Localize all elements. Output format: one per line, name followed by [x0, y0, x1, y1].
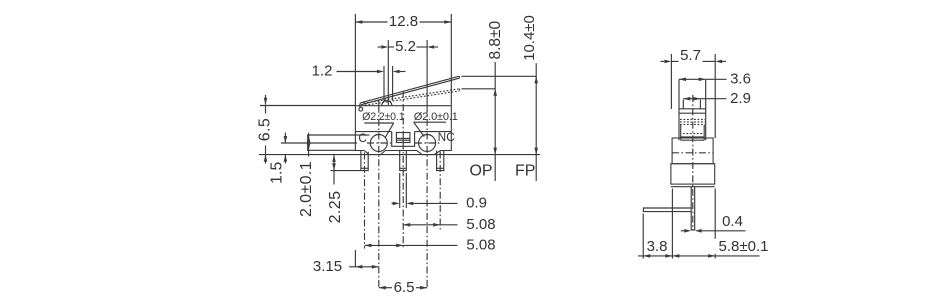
lever free position (solid) - upper edge [360, 76, 459, 103]
terminal pin middle (plunger axis) [400, 151, 407, 171]
side view: body bottom second line [671, 186, 715, 188]
svg-text:Ø2.0±0.1: Ø2.0±0.1 [414, 111, 458, 123]
side view: inner block below lever [680, 125, 682, 140]
svg-text:1.2: 1.2 [312, 63, 333, 80]
dimension 1.2 (dome width) [383, 66, 385, 102]
svg-text:5.08: 5.08 [466, 216, 495, 233]
pin C center line [364, 153, 366, 249]
dimension 5.08 (middle to right pin pitch) [403, 224, 440, 226]
svg-text:2.9: 2.9 [730, 90, 751, 107]
svg-text:0.9: 0.9 [466, 195, 487, 212]
side view: terminal pin (0.4 thick) [690, 187, 692, 230]
dimension 5.7 (overall width) [670, 54, 672, 109]
lever operating position (dashed) - lower edge [365, 91, 459, 105]
dimension 6.5 (body top to seating plane), rotated [265, 95, 267, 105]
lever free position (solid) - lower edge [361, 78, 459, 105]
front view: internal horizontal parting line left [355, 131, 391, 133]
svg-text:3.8: 3.8 [647, 238, 668, 255]
dimension 5.8±0.1 (body width bottom) [714, 189, 716, 259]
lever operating position (dashed) - upper edge [364, 89, 460, 103]
svg-text:1.5: 1.5 [269, 161, 286, 183]
side view: vertical center chain line [692, 95, 694, 230]
front view: left mounting hole circle Ø2.2 [370, 135, 387, 152]
dimension 2.0±0.1 (tab thickness), rotated [308, 133, 310, 157]
dimension line FP 10.4±0, rotated [535, 63, 537, 181]
dimension line OP 8.8±0, rotated [494, 62, 496, 181]
front view: contact plate line near C [355, 134, 369, 136]
extension line from body top to 6.5 dim [260, 105, 355, 107]
datum line - seating plane [259, 154, 540, 156]
extension line for 1.5 dim (tab underside level) [281, 142, 357, 144]
front view: internal horizontal parting line right [415, 131, 452, 133]
extension line OP (lever operating position level) [462, 88, 496, 90]
side view: plunger top (2.9 wide) [682, 100, 684, 109]
extension line FP (lever free position level) [462, 75, 537, 77]
side view: body upper section [672, 138, 713, 164]
svg-text:NC: NC [438, 130, 456, 144]
lever hinge hook at left end [359, 107, 363, 111]
dimension 3.6 (lever width) [679, 78, 706, 80]
dimension 6.5 (hole centers distance, bottom) [379, 287, 392, 289]
front view: left bent terminal tab [308, 135, 356, 150]
svg-text:3.6: 3.6 [730, 71, 751, 88]
svg-text:2.25: 2.25 [327, 191, 344, 224]
svg-text:3.15: 3.15 [313, 258, 342, 275]
svg-text:FP: FP [515, 162, 535, 179]
svg-text:Ø2.2±0.1: Ø2.2±0.1 [362, 111, 405, 123]
side view: body lower section [671, 164, 715, 184]
svg-text:5.7: 5.7 [680, 47, 701, 64]
dimension 5.2 (pivot to hole center) [387, 40, 389, 105]
dimension 5.08 (left to middle pin pitch) [365, 244, 404, 246]
svg-text:OP: OP [469, 162, 492, 179]
dimension 12.8 (top width) [354, 14, 356, 105]
terminal pin NC (right) [437, 151, 444, 171]
front view: right hole horizontal center line [415, 142, 440, 144]
dimension 2.25 (seating plane to pin shoulder), rotated [333, 155, 335, 185]
extension line for 2.25 dim (pin shoulder bottom) [331, 170, 362, 172]
front view: left hole vertical center line down to 6.5 dim [378, 100, 380, 106]
front view: switch body outline [355, 106, 451, 155]
side view: lever outer sides [678, 80, 680, 141]
front view: right hole vertical center line (also 5.2 extension) [426, 40, 428, 106]
dimension 0.4 (pin thickness) [681, 230, 684, 232]
side view: horizontal center chain line [672, 152, 713, 154]
svg-text:6.5: 6.5 [394, 279, 415, 296]
svg-text:8.8±0: 8.8±0 [487, 20, 504, 59]
svg-text:10.4±0: 10.4±0 [521, 15, 538, 61]
lever solid tip cap [458, 76, 461, 78]
front view: plunger block with cross lines [396, 133, 410, 143]
svg-text:5.2: 5.2 [395, 38, 416, 55]
pin NC center line [439, 152, 441, 231]
svg-text:6.5: 6.5 [256, 118, 273, 141]
plunger / middle pin axis center line [402, 91, 404, 133]
dimension 1.5 (tab level to seating plane), rotated [284, 133, 286, 143]
side view: lever hatch dotted rows [680, 118, 705, 120]
svg-text:2.0±0.1: 2.0±0.1 [298, 161, 315, 217]
side view: bent terminal tab [643, 208, 691, 212]
svg-text:C: C [358, 131, 367, 145]
dimension 3.15 (body edge to hole center) [354, 250, 356, 267]
terminal pin C (left) [361, 151, 368, 171]
pivot dome on body top [382, 101, 392, 106]
svg-text:12.8: 12.8 [389, 13, 418, 30]
svg-text:5.8±0.1: 5.8±0.1 [719, 238, 769, 255]
dimension 0.9 (pin width) [399, 173, 401, 208]
dimension 3.8 (tab projection) [642, 214, 644, 259]
lever dashed tip cap [458, 89, 461, 91]
dimension 2.9 (plunger width) [683, 98, 700, 100]
front view: left hole horizontal center line [367, 142, 391, 144]
front view: central recess for plunger [392, 132, 415, 147]
side view: lever cap lines [679, 108, 706, 110]
front view: right mounting hole circle Ø2.0 [419, 135, 436, 152]
svg-text:5.08: 5.08 [466, 237, 495, 254]
svg-text:0.4: 0.4 [722, 213, 743, 230]
